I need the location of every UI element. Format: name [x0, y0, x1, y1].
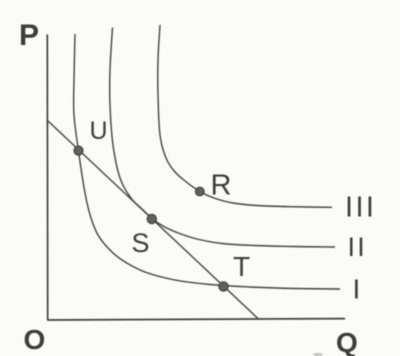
point S (dot)	[147, 214, 156, 223]
svg-text:P: P	[19, 19, 39, 52]
scan smudge near Q	[313, 353, 323, 356]
svg-text:III: III	[345, 192, 376, 224]
svg-text:T: T	[233, 251, 250, 282]
svg-text:U: U	[90, 117, 108, 145]
svg-text:O: O	[24, 324, 46, 355]
x-axis (Q axis)	[47, 319, 345, 320]
svg-text:Q: Q	[336, 327, 358, 356]
point T (dot)	[219, 282, 228, 291]
indifference curve II	[110, 28, 335, 248]
indifference curve III	[158, 25, 332, 207]
svg-text:S: S	[132, 228, 150, 258]
budget line	[48, 121, 260, 320]
svg-text:I: I	[353, 274, 361, 305]
svg-text:II: II	[348, 232, 367, 262]
svg-text:R: R	[211, 170, 232, 202]
y-axis (P axis)	[46, 35, 48, 321]
indifference curve I	[74, 34, 340, 289]
point R (dot)	[195, 187, 204, 196]
point U (dot)	[74, 146, 83, 155]
